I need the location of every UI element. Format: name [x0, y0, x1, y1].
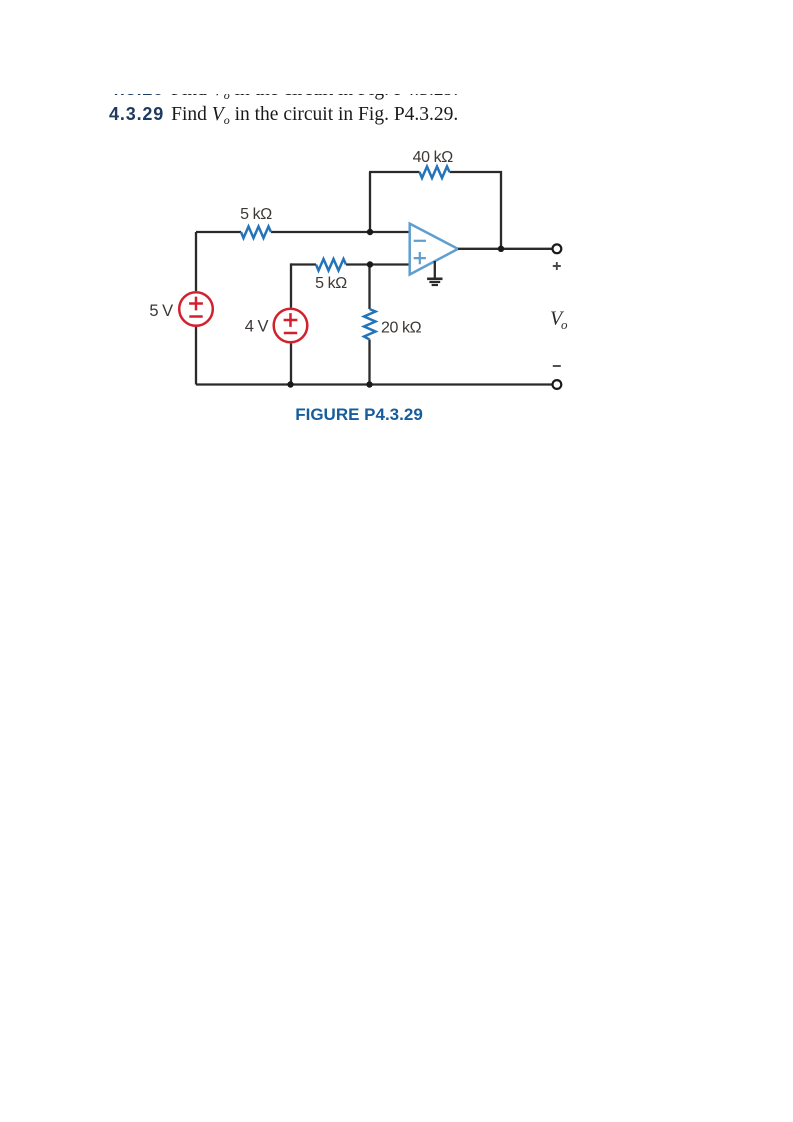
voltage source V2 4V: [274, 309, 308, 343]
svg-text:5 V: 5 V: [149, 302, 173, 320]
svg-text:5 kΩ: 5 kΩ: [315, 275, 347, 292]
resistor R3 40k (feedback): [420, 167, 450, 179]
node: inverting input junction: [367, 229, 373, 235]
wire: bottom rail: [196, 383, 553, 385]
wire: 4V source branch vertical: [290, 263, 292, 384]
svg-text:20 kΩ: 20 kΩ: [381, 320, 422, 337]
svg-text:FIGURE P4.3.29: FIGURE P4.3.29: [295, 405, 423, 424]
wire: feedback right vertical: [500, 171, 502, 249]
wire: left vertical rail: [195, 232, 197, 385]
terminal: output plus: [553, 244, 562, 253]
voltage source V1 5V: [179, 292, 213, 326]
problem statement: [109, 104, 458, 128]
svg-text:40 kΩ: 40 kΩ: [413, 149, 454, 166]
svg-text:5 kΩ: 5 kΩ: [240, 206, 272, 223]
svg-text:o: o: [561, 317, 568, 332]
node: noninverting input junction: [367, 261, 373, 267]
node: 4V bottom junction: [287, 381, 293, 387]
node: 20k bottom junction: [366, 381, 372, 387]
resistor R1 5k (inverting input): [241, 227, 271, 239]
wire: feedback top horizontal: [369, 171, 502, 173]
clipped previous text line: [109, 94, 529, 100]
resistor R4 20k (vertical): [364, 309, 376, 340]
wire: noninverting input horizontal: [291, 263, 410, 265]
label plus output: [553, 262, 561, 270]
label minus output: [553, 365, 561, 367]
wire: 20k branch vertical: [368, 265, 370, 385]
op-amp U1: [410, 224, 458, 275]
wire: feedback left vertical: [369, 172, 371, 232]
ground: [427, 261, 442, 285]
resistor R2 5k (noninverting): [316, 259, 346, 271]
wire: inverting input horizontal: [196, 231, 410, 233]
wire: op-amp output: [458, 248, 553, 250]
terminal: output minus: [553, 380, 562, 389]
node: output feedback junction: [498, 246, 504, 252]
svg-text:4 V: 4 V: [245, 318, 269, 336]
